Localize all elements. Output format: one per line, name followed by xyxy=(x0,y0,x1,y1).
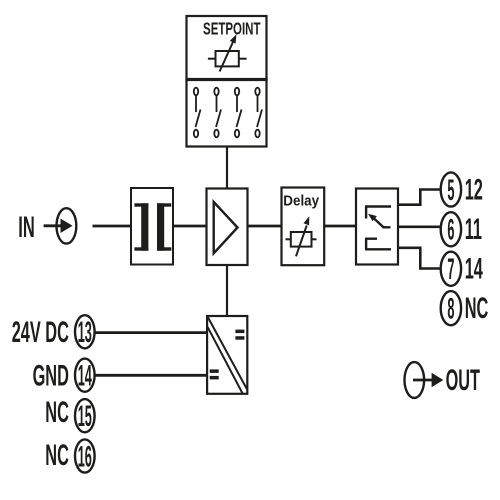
psu dc mark left xyxy=(210,369,219,379)
svg-text:OUT: OUT xyxy=(446,364,481,398)
svg-text:13: 13 xyxy=(78,315,92,349)
svg-text:NC: NC xyxy=(465,292,489,326)
svg-text:6: 6 xyxy=(447,212,454,246)
amplifier symbol xyxy=(214,202,238,253)
switch S4 xyxy=(255,88,262,138)
potentiometer P2 (delay) xyxy=(286,216,317,256)
svg-text:NC: NC xyxy=(45,439,69,473)
switch S3 xyxy=(235,88,242,138)
output terminal xyxy=(405,362,425,398)
wire: relay to terminal 5 xyxy=(398,190,440,205)
wire: relay to terminal 6 xyxy=(398,226,441,229)
input arrow xyxy=(44,219,73,233)
relay contact symbol xyxy=(365,207,391,250)
svg-text:24V DC: 24V DC xyxy=(12,316,69,350)
svg-text:IN: IN xyxy=(18,211,35,244)
DIP switch block xyxy=(187,79,267,147)
transformer symbol xyxy=(134,203,171,250)
amplifier box xyxy=(207,189,248,266)
terminal 5 xyxy=(441,172,461,206)
svg-text:NC: NC xyxy=(45,396,69,430)
wire: transformer to amplifier xyxy=(173,225,207,228)
terminal 15 xyxy=(75,399,95,432)
terminal 13 xyxy=(75,315,95,348)
terminal 16 xyxy=(75,439,95,472)
wire: amplifier to delay xyxy=(248,225,282,228)
psu diagonal 1 xyxy=(208,317,248,390)
psu diagonal 2 xyxy=(208,327,243,394)
delay box xyxy=(282,188,325,266)
switch S2 xyxy=(214,88,221,138)
svg-text:7: 7 xyxy=(447,252,454,286)
svg-text:12: 12 xyxy=(465,173,483,207)
svg-text:5: 5 xyxy=(447,173,454,207)
svg-text:11: 11 xyxy=(465,213,482,247)
output arrow xyxy=(413,373,443,387)
svg-text:15: 15 xyxy=(78,399,92,433)
terminal 8 xyxy=(441,291,461,325)
wire: relay to terminal 7 xyxy=(398,248,440,269)
relay box xyxy=(356,189,398,265)
psu dc mark right xyxy=(235,330,244,340)
transformer box xyxy=(131,188,173,265)
wire: terminal 14 to power supply xyxy=(95,374,208,377)
wire: amplifier to power supply xyxy=(226,265,228,316)
wire: terminal 13 to power supply xyxy=(95,331,208,334)
svg-text:GND: GND xyxy=(33,359,69,393)
svg-text:SETPOINT: SETPOINT xyxy=(203,19,260,39)
svg-text:16: 16 xyxy=(78,439,92,473)
switch S1 xyxy=(194,88,201,138)
setpoint box xyxy=(187,16,267,80)
power supply box xyxy=(207,316,247,394)
input terminal xyxy=(57,208,77,243)
wire: input to transformer xyxy=(93,225,132,228)
svg-text:14: 14 xyxy=(465,253,484,287)
svg-text:14: 14 xyxy=(78,358,92,392)
svg-text:Delay: Delay xyxy=(283,193,319,210)
potentiometer P1 (setpoint) xyxy=(208,34,247,71)
terminal 6 xyxy=(441,212,461,246)
wire: delay to relay xyxy=(324,225,356,228)
terminal 7 xyxy=(441,252,461,286)
svg-text:8: 8 xyxy=(447,291,454,325)
wire: switch block to amplifier xyxy=(226,147,228,190)
terminal 14 xyxy=(75,359,95,392)
